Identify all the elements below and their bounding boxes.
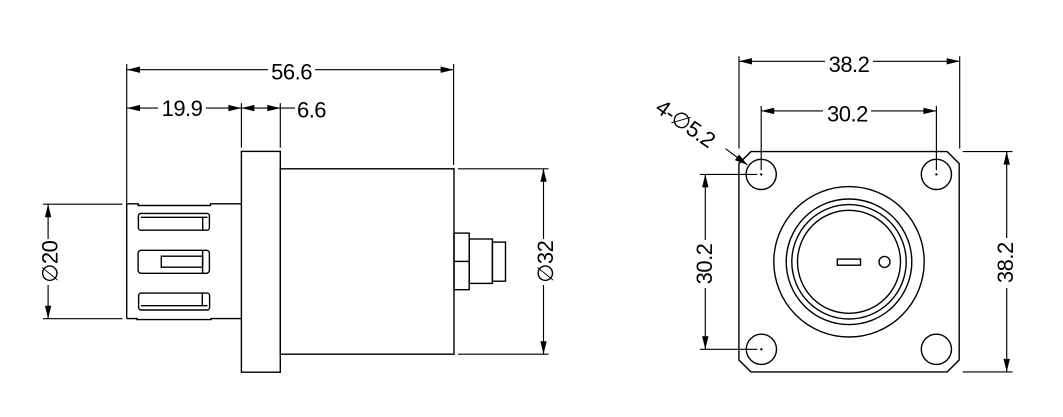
side view: rear spigot step 1 (454, 233, 469, 290)
arrowhead leader 4-dia5.2 (735, 155, 748, 166)
dimension 38.2 top: extension lines (739, 56, 960, 148)
arrowheads 30.2 top (761, 108, 774, 114)
dimension dia32: extension lines (458, 169, 549, 354)
side view: plug barrel outline (127, 204, 242, 320)
arrowheads 30.2 left (702, 174, 708, 187)
hole centerline top-right vertical (935, 106, 937, 170)
center dot bottom-left hole (760, 348, 762, 350)
svg-text:38.2: 38.2 (829, 52, 870, 77)
side view: rear spigot step 2 (469, 239, 492, 283)
dimension dia32: dimension line (543, 169, 545, 354)
side view: rear spigot step 3 (492, 242, 505, 281)
text mask dia32 (536, 239, 551, 285)
arrowheads dia32 (540, 169, 546, 182)
svg-text:6.6: 6.6 (297, 98, 326, 123)
dimension 56.6: extension lines (127, 64, 454, 204)
svg-text:30.2: 30.2 (827, 102, 868, 127)
dimension 38.2 right: extension lines (963, 152, 1013, 372)
front view: contact cavity (879, 256, 890, 267)
dimension 6.6: dimension line with tail (241, 107, 295, 109)
center dot top-right hole (935, 173, 937, 175)
hole centerline bottom-left horizontal (700, 348, 758, 350)
dimension 19.9: dimension line (127, 107, 241, 109)
svg-text:56.6: 56.6 (271, 60, 312, 85)
front view: bolt hole bottom-left (746, 334, 776, 364)
front view: bolt hole top-right (921, 159, 951, 189)
dimension dia20: dimension line (47, 204, 49, 319)
front view: bolt hole top-left (746, 159, 776, 189)
dimension 30.2 left: dimension line (704, 174, 706, 349)
front view: insert face circle (798, 210, 901, 313)
side view: top bayonet slot (138, 213, 209, 230)
front view: shell outer circle (774, 187, 924, 337)
arrowheads 6.6 (241, 105, 254, 111)
side view: middle bayonet slot (138, 250, 209, 273)
svg-text:∅32: ∅32 (533, 240, 558, 282)
text mask 38.2 right (999, 238, 1013, 288)
center dot top-left hole (760, 173, 762, 175)
side view: main body shell (280, 169, 454, 354)
text mask 56.6 (268, 63, 315, 77)
dimension 38.2 right: dimension line (1006, 152, 1008, 372)
svg-text:38.2: 38.2 (993, 242, 1018, 283)
text mask 30.2 top (823, 105, 871, 119)
dimension 6.6: extension lines (241, 103, 280, 148)
text mask 19.9 (158, 101, 206, 115)
dimension 38.2 top: dimension line (739, 60, 960, 62)
side view: bottom bayonet slot (139, 293, 210, 310)
front view: polarizing key slot (837, 259, 860, 265)
svg-text:30.2: 30.2 (692, 243, 717, 284)
dimension 56.6: dimension line (127, 69, 454, 71)
side view: rear spigot mid line (454, 260, 469, 262)
hole centerline top-left vertical (760, 106, 762, 170)
arrowheads 38.2 top (739, 58, 752, 64)
text mask dia20 (40, 239, 55, 285)
side view: mounting flange plate (241, 151, 280, 372)
text mask 30.2 left (698, 240, 712, 288)
arrowheads 38.2 right (1004, 152, 1010, 165)
front view: shell circle 3 (792, 205, 906, 319)
dimension dia20: extension lines (43, 204, 123, 319)
arrowheads dia20 (45, 204, 51, 217)
text mask 38.2 top (825, 55, 873, 69)
leader line 4-dia5.2 (726, 149, 748, 165)
arrowheads 56.6 (127, 67, 140, 73)
svg-text:∅20: ∅20 (38, 240, 63, 282)
arrowheads 19.9 (127, 105, 140, 111)
front view: square flange with chamfered corners (739, 152, 959, 372)
front view: bolt hole bottom-right (921, 334, 951, 364)
dimension 30.2 top: dimension line (761, 110, 936, 112)
hole centerline top-left horizontal (700, 173, 757, 175)
svg-text:19.9: 19.9 (162, 96, 203, 121)
front view: coupling ring circle (786, 199, 912, 325)
